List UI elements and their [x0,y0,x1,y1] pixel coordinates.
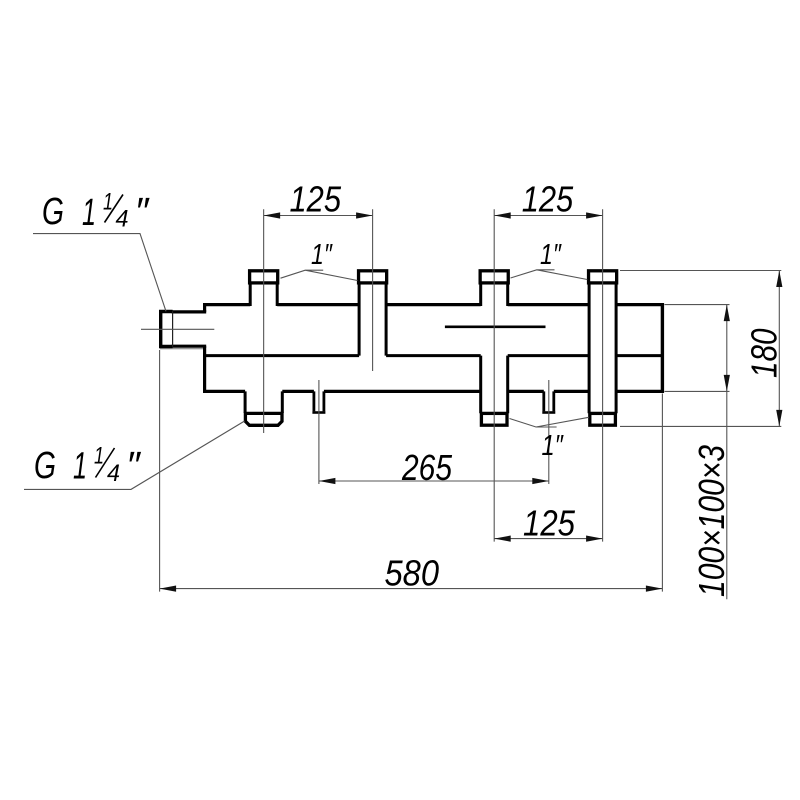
svg-text:125: 125 [522,179,574,220]
svg-text:″: ″ [126,445,142,487]
left end step verticals [203,303,206,393]
svg-text:G: G [42,191,64,233]
dimension 100 extension lines [665,305,730,392]
leader for top 1 inch label right [511,270,588,280]
svg-text:4: 4 [107,460,120,487]
dimension 180 arrows [776,271,782,427]
label G 1 1/4 bottom : fraction slash [96,448,115,478]
top branch 3 thread cap [480,271,508,283]
dimension 180 line [778,271,780,427]
dimension 180 extension lines [620,271,781,427]
drain stub 1 axis and extension line [318,380,320,484]
left port horizontal centerline [141,328,214,330]
dimension 125 top-right arrows [494,212,602,218]
dimension 100 arrows [724,305,730,392]
leader for top G label [33,234,166,312]
left port cap inner edge [172,311,174,347]
bottom branch 2 neck [481,356,508,414]
svg-text:G: G [34,445,56,487]
svg-text:4: 4 [116,206,129,233]
dimension 100 line with label extension [726,305,728,600]
branch 2 axis and extension line [372,209,374,371]
internal separator line between chambers [205,354,663,357]
dimension 580 extension lines [160,350,663,592]
through pipe branch 4 top to bottom branch 3 [589,283,616,413]
dimension 265 arrows [319,478,549,484]
manifold body top edge [205,303,663,306]
dimension 125 bottom arrows [494,536,602,542]
top branch 2 neck [359,283,386,356]
dimension 580 arrows [160,586,663,592]
svg-text:1″: 1″ [311,239,333,271]
branch 1 axis and extension line [263,209,265,433]
svg-text:180: 180 [743,329,784,379]
dimension 265 line [319,480,549,482]
bottom branch 1 cap G 1 1/4 [245,413,282,425]
bottom branch 1 neck [245,391,282,413]
top branch 2 thread cap [359,271,387,283]
top branch 1 thread cap [250,271,278,283]
drain stub 1 bottom [312,411,325,414]
top branch 1 neck [250,283,277,306]
branch 4 axis and extension line [602,209,604,541]
dimension 125 bottom line [494,538,602,540]
left port G 1 1/4 stub pipe [172,312,207,346]
svg-text:100×100×3: 100×100×3 [691,445,732,597]
svg-text:125: 125 [523,503,576,544]
bottom branch 3 thread cap [590,413,616,425]
drain stub 2 [544,391,554,411]
drain stub 2 axis and extension line [548,380,550,484]
svg-text:1″: 1″ [540,239,562,271]
internal weld mark line [445,325,546,328]
branch 3 axis and extension line [493,209,495,541]
left port union cap [161,312,173,347]
svg-text:125: 125 [290,179,342,220]
top branch 3 neck [481,283,508,306]
svg-text:1″: 1″ [542,430,565,462]
leader for top 1 inch label left [281,270,358,280]
dimension 125 top-right line [494,215,602,217]
leader for bottom G label [24,421,245,489]
svg-text:1: 1 [82,192,96,234]
svg-text:580: 580 [385,553,440,594]
bottom branch 2 thread cap [481,413,507,425]
dimension 125 top-left line [264,215,373,217]
top branch 4 thread cap [589,271,617,283]
right end edge [661,303,664,393]
label G 1 1/4 top : fraction slash [105,195,124,223]
left port cap lower hairline [160,348,203,350]
drain stub 2 bottom [542,411,555,414]
dimension 580 line [160,588,663,590]
svg-text:265: 265 [401,447,453,488]
manifold body bottom edge [205,390,663,393]
dimension 125 top-left arrows [264,212,373,218]
leader for bottom 1 inch label [510,417,589,427]
svg-text:″: ″ [135,191,151,233]
drain stub 1 [314,391,324,411]
svg-text:1: 1 [73,446,87,488]
